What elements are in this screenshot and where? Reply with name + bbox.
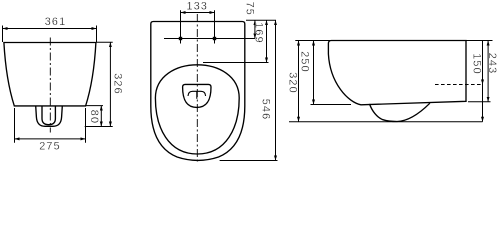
svg-text:75: 75 bbox=[244, 2, 256, 16]
svg-text:133: 133 bbox=[186, 0, 208, 12]
svg-text:150: 150 bbox=[471, 53, 483, 75]
svg-text:320: 320 bbox=[287, 72, 299, 94]
svg-text:546: 546 bbox=[260, 99, 272, 121]
svg-text:361: 361 bbox=[45, 16, 67, 28]
svg-text:275: 275 bbox=[39, 141, 61, 153]
svg-text:243: 243 bbox=[486, 53, 498, 75]
svg-text:250: 250 bbox=[298, 51, 310, 73]
svg-text:80: 80 bbox=[88, 110, 100, 124]
svg-text:169: 169 bbox=[253, 22, 265, 44]
svg-text:326: 326 bbox=[112, 73, 124, 95]
